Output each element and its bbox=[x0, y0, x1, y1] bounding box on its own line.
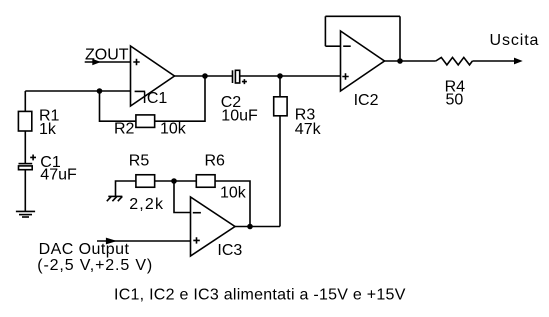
svg-text:DAC Output: DAC Output bbox=[39, 241, 130, 258]
node junction IC2 output bbox=[397, 58, 403, 64]
resistor R1 bbox=[18, 111, 31, 131]
resistor R4 zigzag bbox=[436, 57, 473, 65]
node junction IC3 output feedback bbox=[247, 224, 253, 230]
wire left rail down to R1 bbox=[24, 91, 26, 111]
svg-text:IC1, IC2 e IC3 alimentati a -1: IC1, IC2 e IC3 alimentati a -15V e +15V bbox=[114, 287, 406, 304]
wire IC2 feedback right vertical bbox=[399, 16, 401, 61]
svg-text:(-2,5 V,+2.5 V): (-2,5 V,+2.5 V) bbox=[37, 257, 153, 274]
wire C2 to IC2 non-inverting input bbox=[240, 75, 341, 77]
svg-text:R6: R6 bbox=[205, 152, 226, 169]
wire node to IC3 inverting input bbox=[174, 181, 191, 213]
wire IC2 feedback top bbox=[325, 15, 400, 17]
node junction R5 R6 bbox=[171, 178, 177, 184]
svg-text:Uscita: Uscita bbox=[490, 32, 540, 49]
op-amp IC1 bbox=[131, 46, 175, 106]
node junction inverting input / R2 bbox=[97, 88, 103, 94]
svg-text:1k: 1k bbox=[39, 121, 57, 138]
wire IC3 output bbox=[235, 226, 280, 228]
svg-text:IC2: IC2 bbox=[354, 92, 379, 109]
wire feedback from node down to R2 bbox=[100, 91, 136, 121]
svg-text:ZOUT: ZOUT bbox=[85, 47, 129, 64]
wire C1 to ground bbox=[24, 170, 26, 212]
svg-text:10k: 10k bbox=[160, 120, 187, 137]
svg-text:IC3: IC3 bbox=[217, 242, 242, 259]
ground earth below C1 bbox=[16, 211, 35, 217]
svg-text:IC1: IC1 bbox=[142, 90, 167, 107]
input arrow ZOUT bbox=[92, 59, 101, 66]
wire IC1 output to C2 bbox=[175, 75, 233, 77]
wire ZOUT input to IC1 non-inverting input bbox=[85, 61, 131, 63]
wire R2 to IC1 output rail bbox=[155, 76, 205, 121]
svg-text:47uF: 47uF bbox=[40, 167, 77, 184]
op-amp IC3 bbox=[191, 197, 236, 256]
resistor R5 bbox=[136, 175, 155, 188]
wire left rail to IC1 inverting input bbox=[25, 90, 130, 92]
svg-text:R5: R5 bbox=[129, 152, 150, 169]
wire R4 to output arrow bbox=[472, 60, 514, 62]
wire IC2 inverting input stub bbox=[325, 45, 340, 47]
node junction IC1 output bbox=[202, 73, 208, 79]
input arrow DAC bbox=[106, 238, 117, 245]
wire IC2 output to R4 bbox=[385, 60, 436, 62]
resistor R2 bbox=[136, 115, 155, 128]
node junction R3 top bbox=[277, 73, 283, 79]
svg-text:10uF: 10uF bbox=[221, 107, 258, 124]
capacitor C2 bbox=[233, 70, 247, 84]
chassis ground at R5 bbox=[107, 196, 123, 201]
svg-text:47k: 47k bbox=[295, 121, 322, 138]
wire R6 right and down to IC3 output bbox=[215, 181, 250, 227]
wire node down to R3 bbox=[279, 76, 281, 97]
wire IC2 feedback left vertical bbox=[324, 16, 326, 46]
output arrow Uscita bbox=[514, 58, 523, 65]
wire R1 to C1 bbox=[24, 131, 26, 164]
svg-text:R2: R2 bbox=[114, 120, 135, 137]
capacitor C1 bbox=[19, 155, 37, 170]
resistor R3 bbox=[274, 97, 287, 116]
wire R5 to R6 bbox=[155, 180, 197, 182]
wire R3 down to IC3 output rail bbox=[279, 116, 281, 227]
resistor R6 bbox=[196, 175, 215, 188]
wire DAC input to IC3 non-inverting input bbox=[97, 240, 191, 242]
svg-text:2,2k: 2,2k bbox=[129, 196, 164, 213]
svg-text:50: 50 bbox=[446, 92, 464, 109]
op-amp IC2 bbox=[341, 31, 385, 91]
svg-text:10k: 10k bbox=[220, 184, 247, 201]
wire ground up to R5 bbox=[116, 181, 137, 196]
